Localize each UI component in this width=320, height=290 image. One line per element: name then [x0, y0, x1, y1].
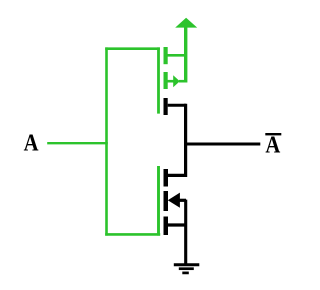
wire output vertical (PMOS drain to NMOS drain)	[184, 104, 187, 177]
node A label	[24, 129, 39, 156]
NMOS Q2 source stub wire	[168, 223, 186, 226]
NMOS Q2 source channel segment	[164, 217, 169, 236]
ground symbol bar 1	[174, 263, 200, 266]
svg-text:A: A	[265, 131, 280, 158]
PMOS Q1 drain stub wire	[168, 104, 186, 107]
PMOS Q1 body arrow tail wire	[179, 80, 186, 83]
PMOS Q1 body stub wire	[168, 80, 175, 83]
wire input A (green)	[47, 142, 108, 144]
PMOS Q1 drain channel segment (black / output net)	[164, 98, 168, 115]
wire top horizontal to PMOS gate	[105, 47, 160, 50]
ground symbol bar 3	[182, 272, 189, 275]
PMOS Q1 source channel segment	[164, 47, 168, 64]
wire left vertical (input net)	[105, 47, 108, 235]
NMOS Q2 drain stub wire	[168, 174, 186, 177]
VDD supply arrow head	[175, 18, 197, 28]
VDD wire vertical (arrow shaft down to PMOS body/source)	[184, 27, 187, 83]
NMOS Q2 body arrow tail wire	[180, 199, 187, 202]
PMOS Q1 body channel segment	[164, 72, 168, 89]
PMOS Q1 gate bar	[157, 47, 160, 113]
NMOS Q2 body channel segment	[164, 191, 169, 211]
node Abar label overbar	[265, 133, 281, 135]
NMOS Q2 gate bar (green input net)	[157, 166, 160, 236]
NMOS Q2 drain channel segment	[164, 169, 169, 187]
wire ground vertical (NMOS body/source down to ground)	[184, 200, 187, 265]
node Abar label letter	[265, 131, 280, 158]
ground symbol bar 2	[179, 267, 194, 270]
PMOS Q1 source stub wire	[168, 54, 187, 57]
wire output horizontal to label	[184, 143, 260, 146]
NMOS Q2 body arrow (points left into channel)	[168, 193, 180, 208]
PMOS Q1 body arrow (points right)	[173, 75, 180, 87]
svg-text:A: A	[24, 129, 39, 156]
wire bottom horizontal to NMOS gate	[105, 233, 160, 236]
